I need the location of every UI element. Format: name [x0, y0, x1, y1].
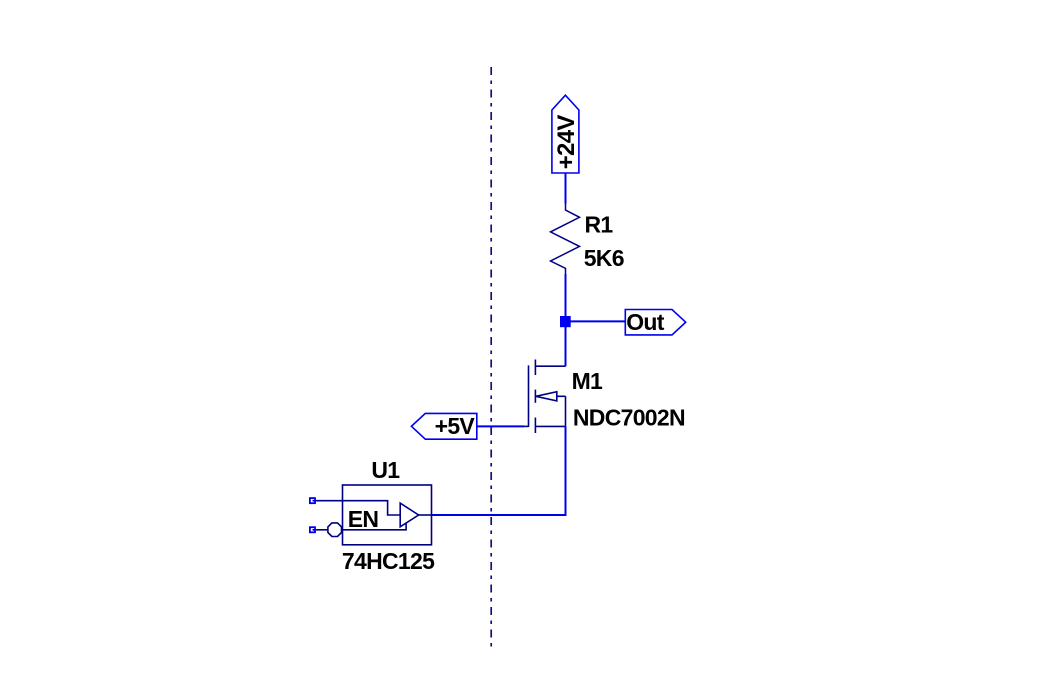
gate bar: [528, 365, 530, 427]
gate lead stub: [524, 425, 529, 427]
pin 2 open port square: [310, 527, 315, 532]
net flag Out: [625, 309, 685, 335]
wire flag +24V to resistor: [565, 173, 567, 204]
body contact bar: [534, 390, 536, 403]
svg-text:+24V: +24V: [553, 115, 580, 170]
power flag +5V: [411, 413, 476, 439]
svg-text:Out: Out: [626, 309, 665, 335]
wire mosfet source down and to buffer output: [432, 426, 566, 515]
svg-text:R1: R1: [585, 212, 614, 238]
input lead pin 1: [313, 501, 401, 515]
drain stub: [535, 365, 565, 367]
svg-text:U1: U1: [371, 457, 400, 483]
drain contact bar: [534, 360, 536, 376]
pin 1 open port square: [310, 498, 315, 503]
wire resistor to mosfet drain: [565, 274, 567, 366]
svg-text:NDC7002N: NDC7002N: [573, 404, 685, 430]
resistor R1: [551, 203, 580, 275]
transistor M1 (NMOS): [524, 360, 566, 434]
body-source tie: [565, 396, 567, 426]
buffer triangle: [400, 503, 418, 527]
body stub with arrow: [536, 392, 557, 401]
wire +5V flag to gate: [477, 425, 524, 427]
source stub: [535, 425, 565, 427]
svg-text:5K6: 5K6: [584, 245, 624, 271]
source contact bar: [534, 418, 536, 434]
power flag +24V: [552, 95, 580, 173]
node junction: [560, 316, 571, 327]
svg-text:M1: M1: [572, 368, 603, 394]
output lead: [419, 514, 432, 516]
svg-text:+5V: +5V: [435, 413, 476, 439]
wire node to Out flag: [570, 320, 625, 322]
svg-text:74HC125: 74HC125: [342, 548, 435, 574]
buffer U1 74HC125: [313, 485, 432, 545]
isolation boundary dash-dot line: [490, 67, 492, 651]
enable bubble: [328, 523, 342, 537]
enable lead pin 2: [313, 529, 328, 531]
svg-text:EN: EN: [348, 506, 379, 532]
body box: [343, 485, 432, 545]
